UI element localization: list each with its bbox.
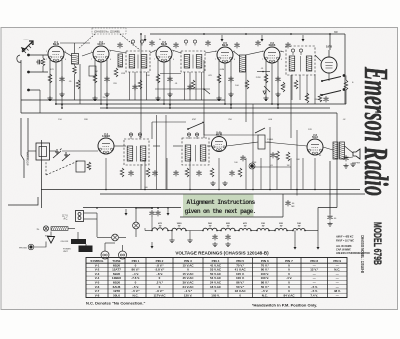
wire loop left bbox=[28, 150, 36, 152]
wire chain link bbox=[287, 230, 293, 232]
rectifier SE @136,225.5 bbox=[133, 222, 140, 229]
capacitor C top @208 bbox=[205, 40, 210, 46]
capacitor C top @288 bbox=[285, 42, 290, 48]
resistor R V8 grid stopper bbox=[318, 94, 322, 102]
wire vertical 166 bbox=[165, 115, 167, 190]
wire chain lead-in bbox=[145, 230, 152, 232]
callout chassis numbers note bbox=[92, 28, 126, 34]
wire T3 lead @201.5 bbox=[201, 72, 203, 100]
wire gang frame bbox=[41, 140, 43, 208]
junction @253,189.5 bbox=[252, 189, 254, 191]
wire AC neutral bbox=[84, 218, 97, 220]
tube V8 50L6 bbox=[307, 139, 323, 155]
IF transformer T5 3rd IF bbox=[286, 46, 315, 75]
wire vertical 337 bbox=[336, 113, 338, 208]
arrow from top bus @262 bbox=[261, 35, 264, 42]
wire IF drop bbox=[151, 122, 153, 139]
volume control R12 bbox=[258, 135, 265, 149]
loop antenna L1 bbox=[36, 143, 50, 160]
wire bus 4 bbox=[41, 189, 360, 191]
trimmer capacitor @131 bbox=[129, 133, 132, 139]
resistor R5 hatched bbox=[118, 54, 123, 67]
capacitor C16 40MF bbox=[285, 200, 290, 206]
band switch S1 wafer A bbox=[322, 77, 341, 82]
rectifier SE @115,237.5 bbox=[112, 234, 119, 241]
resistor R ballast bbox=[51, 227, 68, 231]
arrow feed @126 bbox=[125, 209, 128, 216]
junction top bus @291 bbox=[290, 33, 292, 35]
capacitor C bypass @170 bbox=[167, 76, 172, 82]
arrowhead feed @170 bbox=[169, 104, 172, 107]
wire link to volume bbox=[204, 134, 258, 136]
wire chain link bbox=[168, 230, 172, 232]
wire chain link bbox=[251, 230, 257, 232]
junction @190,189.5 bbox=[189, 189, 191, 191]
wire chain out bbox=[305, 230, 318, 232]
wire rect feed bbox=[135, 208, 137, 222]
wire socket feed 1 bbox=[104, 243, 106, 251]
switch contact B bbox=[343, 88, 346, 91]
wire switch to audio bbox=[203, 124, 205, 135]
wire tube grid drop bbox=[271, 63, 273, 104]
resistor R chain 3 bbox=[203, 228, 217, 230]
ground bbox=[167, 92, 172, 97]
wire tube grid drop bbox=[55, 62, 57, 104]
switch contact bbox=[202, 122, 204, 124]
junction top bus @141 bbox=[140, 33, 142, 35]
ground bbox=[343, 164, 348, 169]
wire top link bbox=[152, 121, 186, 123]
ground bbox=[59, 92, 64, 97]
tube socket view @105 bbox=[101, 251, 109, 259]
resistor R bias @219 bbox=[217, 74, 221, 83]
resistor R 1meg bbox=[286, 152, 290, 161]
wire drop @106 bbox=[105, 158, 107, 190]
wire AVC bus bbox=[21, 99, 225, 101]
trimmer capacitor @197 bbox=[195, 133, 198, 139]
wire AC hot bbox=[84, 212, 97, 214]
wire V5 plate to L4 bbox=[233, 51, 240, 56]
ground bbox=[327, 222, 332, 227]
junction @106,189.5 bbox=[105, 189, 107, 191]
wire tube cathode drop bbox=[94, 60, 96, 100]
wire socket feed 2 bbox=[122, 245, 124, 251]
wire ext terminal bbox=[29, 89, 41, 91]
junction @56,104 bbox=[55, 103, 57, 105]
trimmer capacitor T5 @301 bbox=[299, 49, 302, 55]
tube V4 12BE6 bbox=[98, 138, 114, 154]
resistor R chain 2 bbox=[172, 228, 186, 230]
capacitor C top @176 bbox=[173, 42, 178, 48]
resistor R plate V2 bbox=[114, 68, 118, 77]
arrow B+ end bbox=[317, 243, 320, 250]
resistor R row2 @187 bbox=[185, 168, 189, 177]
resistor R screen @78 bbox=[76, 80, 80, 89]
arrow feed @168 bbox=[167, 209, 170, 216]
wire T2 lead @146.5 bbox=[146, 72, 148, 100]
ground bbox=[216, 96, 221, 101]
ground bbox=[92, 96, 97, 101]
capacitor C bypass @231 bbox=[228, 76, 233, 82]
wire bus 5 bbox=[100, 193, 365, 195]
resistor R bias @50 bbox=[48, 74, 52, 83]
wire tube plate drop bbox=[230, 61, 232, 108]
arrow from top bus @145 bbox=[144, 35, 147, 42]
capacitor C coupling audio bbox=[270, 152, 275, 158]
wire ballast to switch bbox=[68, 228, 75, 230]
wire drop @291 bbox=[290, 158, 292, 190]
callout leader lines bbox=[78, 34, 140, 50]
capacitor C row2 @155 bbox=[152, 170, 157, 176]
wire T3 lead @196 bbox=[195, 72, 197, 100]
trimmer capacitor T5 @293 bbox=[291, 49, 294, 55]
wire loop right bbox=[50, 150, 57, 152]
antenna lead-in loop bbox=[17, 55, 21, 62]
wire vertical right of note bbox=[282, 194, 284, 217]
ground bbox=[212, 242, 217, 247]
capacitor C under T3 bbox=[187, 84, 192, 90]
junction @225,104 bbox=[224, 103, 226, 105]
capacitor C row2 @131 bbox=[128, 170, 133, 176]
wire return y89 bbox=[155, 88, 210, 90]
voltage readings table body rows bbox=[95, 263, 341, 297]
wire T7 to V5b bbox=[207, 145, 212, 147]
wire to speaker bbox=[345, 146, 354, 153]
wire tube cathode drop bbox=[49, 60, 51, 100]
ground bbox=[155, 96, 160, 101]
junction top bus @246 bbox=[245, 33, 247, 35]
wire T5 lead @292 bbox=[291, 75, 293, 100]
wire V3 plate to T3 bbox=[172, 50, 181, 53]
wire AC run bbox=[96, 213, 98, 237]
ground bbox=[222, 181, 227, 186]
capacitor C row2 @199 bbox=[196, 170, 201, 176]
junction B+ bus @97 bbox=[96, 207, 98, 209]
tube V5 6BJ6 bbox=[217, 47, 233, 63]
wire T5 secondary down bbox=[314, 75, 316, 104]
junction @158,100 bbox=[157, 99, 159, 101]
tube V3 6BJ6 bbox=[156, 46, 172, 62]
pilot lamp I1 bbox=[43, 226, 48, 231]
junction top bus @204 bbox=[203, 33, 205, 35]
resistor R chain 4 bbox=[221, 228, 235, 230]
capacitor C filter B bbox=[155, 210, 160, 216]
wire T5 lead @300 bbox=[299, 75, 301, 100]
voltage readings table header row bbox=[90, 259, 341, 263]
resistor R row2 @212 bbox=[210, 168, 214, 177]
junction @219,100 bbox=[218, 99, 220, 101]
coil L4 bbox=[240, 55, 246, 72]
resistor R screen @296 bbox=[294, 80, 298, 89]
wire loop feed bbox=[27, 118, 29, 160]
wire R4 down bbox=[74, 74, 76, 100]
terminal GND bbox=[27, 71, 30, 74]
wire segment 318-337 bbox=[318, 207, 337, 209]
junction @272,104 bbox=[271, 103, 273, 105]
arrow from top bus @222 bbox=[221, 35, 224, 42]
junction @278,108 bbox=[277, 107, 279, 109]
capacitor C bypass @278 bbox=[275, 76, 280, 82]
wire T3 lead @184.5 bbox=[184, 72, 186, 100]
capacitor C bypass @62 bbox=[59, 76, 64, 82]
arrow feed 295 bbox=[294, 243, 297, 250]
trimmer capacitor @189 bbox=[187, 133, 190, 139]
wire T3 to V5 grid bbox=[205, 51, 217, 53]
junction @231,108 bbox=[230, 107, 232, 109]
wire tangent below note bbox=[180, 216, 283, 218]
capacitor C row2 @176 bbox=[173, 170, 178, 176]
wire audio to V8 grid bbox=[265, 142, 307, 146]
wire diode to switch bbox=[328, 73, 330, 81]
resistor R grid bbox=[276, 151, 280, 160]
trimmer capacitor top @195 bbox=[193, 40, 196, 46]
tube V6 6BD6 bbox=[264, 47, 280, 63]
junction @101,104 bbox=[100, 103, 102, 105]
capacitor C1 coupling bbox=[36, 60, 42, 65]
wire V4 plate to T6 bbox=[114, 145, 126, 147]
wire T2 lead @135 bbox=[134, 72, 136, 100]
resistor R chain 1 bbox=[152, 228, 168, 231]
wire drop @167 bbox=[166, 158, 168, 190]
capacitor C filter A bbox=[149, 210, 154, 216]
capacitor C top @152 bbox=[149, 40, 154, 46]
band switch S1 wafer B bbox=[322, 91, 341, 96]
ground bbox=[169, 238, 174, 243]
resistor R chain 8 bbox=[293, 229, 305, 231]
wire chain drop bbox=[317, 231, 319, 244]
wire drop @261 bbox=[260, 158, 262, 190]
wire V7 stem bbox=[328, 50, 330, 57]
resistor R row2 @148 bbox=[146, 168, 150, 177]
wire tube plate drop bbox=[106, 60, 108, 108]
wire tube grid drop bbox=[224, 63, 226, 104]
arrow from top bus @303 bbox=[302, 35, 305, 42]
ground bbox=[225, 242, 230, 247]
capacitor C17 40MF bbox=[327, 214, 332, 220]
phono jack J1 bbox=[250, 164, 254, 168]
wire chain link bbox=[217, 230, 221, 232]
wire T5 B+ drop bbox=[329, 34, 331, 50]
switch contact A bbox=[343, 74, 346, 77]
wire coil sec down bbox=[79, 64, 81, 104]
wire vertical 204 bbox=[203, 60, 205, 138]
wire T2 lead @129.5 bbox=[129, 72, 131, 100]
wire over coil bbox=[60, 42, 90, 44]
capacitor C det bbox=[240, 155, 245, 161]
capacitor C top @258 bbox=[255, 40, 260, 46]
ground bbox=[187, 238, 192, 243]
trimmer capacitor top @186 bbox=[184, 40, 187, 46]
wire tube plate drop bbox=[277, 61, 279, 108]
wire antenna to V1 bbox=[29, 54, 49, 56]
arrow to filament bbox=[151, 242, 154, 249]
wire vertical 141 top bbox=[140, 34, 142, 138]
capacitor C bypass @107 bbox=[104, 76, 109, 82]
wire drop @277 bbox=[276, 158, 278, 190]
resistor R chain 7 bbox=[275, 229, 287, 231]
AVC arrow bbox=[263, 91, 266, 94]
wire vertical 246 bbox=[245, 55, 247, 122]
wire tube cathode drop bbox=[265, 61, 267, 100]
wire vertical 291 bbox=[290, 75, 292, 138]
wire drop @315 bbox=[314, 158, 316, 190]
arrowhead feed @231 bbox=[230, 104, 233, 107]
ground bbox=[210, 181, 215, 186]
wire segment bbox=[257, 71, 270, 73]
wire vertical 253 bbox=[252, 104, 254, 190]
wire gang to V4 grid bbox=[62, 150, 98, 152]
wire tube cathode drop bbox=[157, 60, 159, 100]
alignment note highlight bbox=[183, 195, 254, 217]
ground bbox=[104, 92, 109, 97]
wire vertical 297 bbox=[296, 130, 298, 196]
wire gnd terminal bbox=[29, 71, 49, 73]
speaker SP1 bbox=[353, 149, 360, 159]
wire vertical 156 bbox=[156, 115, 158, 190]
resistor R screen @193 bbox=[191, 80, 195, 89]
wire V8 plate to T8 bbox=[323, 147, 333, 150]
wire coil to R4 bbox=[74, 64, 76, 66]
wire to T7 bbox=[173, 145, 181, 147]
trimmer capacitor top @142 bbox=[140, 40, 143, 46]
resistor R audio bbox=[344, 80, 348, 90]
junction top bus @330 bbox=[329, 33, 331, 35]
power resistor block bbox=[79, 246, 93, 253]
trimmer capacitor @140 bbox=[138, 133, 141, 139]
wire top B+ bus bbox=[150, 33, 345, 35]
wire drop to chain end bbox=[317, 208, 319, 231]
wire ground bus bbox=[21, 112, 337, 114]
on-off switch S3 (on volume) bbox=[71, 239, 86, 244]
switch on volume control bbox=[255, 128, 265, 133]
wire tube plate drop bbox=[61, 60, 63, 108]
junction @50,100 bbox=[49, 99, 51, 101]
oscillator trim box bbox=[89, 66, 96, 76]
switch pivot bbox=[187, 128, 189, 130]
wire phono enclosure corner bbox=[8, 197, 38, 205]
wire T6 to bus bbox=[153, 145, 160, 147]
output transformer T8 bbox=[333, 142, 345, 159]
tube socket view @122.5 bbox=[119, 251, 127, 259]
wire left vertical 1 bbox=[20, 60, 22, 113]
junction B+ bus @168 bbox=[167, 207, 169, 209]
wire B+ distribution bus bbox=[83, 207, 181, 209]
junction @170,108 bbox=[169, 107, 171, 109]
wire right vertical from top bus bbox=[344, 34, 346, 104]
resistor R chain 6 bbox=[257, 229, 269, 231]
wire L3 to V2 grid bbox=[82, 52, 94, 56]
wire bus 2 bbox=[55, 103, 346, 105]
wire vertical 141 bottom bbox=[140, 164, 142, 190]
arrowhead feed @62 bbox=[61, 104, 64, 107]
wire jog bbox=[204, 89, 210, 94]
wire audio return bbox=[253, 166, 291, 168]
wire loop return bbox=[21, 118, 24, 178]
ground bbox=[350, 162, 355, 167]
junction @270,189.5 bbox=[269, 189, 271, 191]
antenna hatch bbox=[24, 43, 34, 53]
IF transformer T3 2nd IF bbox=[181, 51, 205, 72]
ground bbox=[275, 92, 280, 97]
junction B+ bus @152 bbox=[151, 207, 153, 209]
junction @62,108 bbox=[61, 107, 63, 109]
wire cap to chain bbox=[151, 216, 153, 231]
wire vertical 270 bbox=[269, 127, 271, 190]
capacitor C filter @228 bbox=[225, 234, 230, 240]
wire vertical 330 bbox=[329, 161, 331, 214]
wire drop 295 bbox=[294, 231, 296, 244]
variable capacitor C2a bbox=[53, 149, 61, 158]
capacitor C top @237 bbox=[234, 42, 239, 48]
junction @107,108 bbox=[106, 107, 108, 109]
wire ext drop bbox=[39, 90, 41, 113]
resistor R screen @140 bbox=[138, 80, 142, 89]
wire bus 3 bbox=[100, 107, 330, 109]
wire T5 lead @307 bbox=[306, 75, 308, 100]
junction @315,189.5 bbox=[314, 189, 316, 191]
junction @297,189.5 bbox=[296, 189, 298, 191]
wire drop @246 bbox=[245, 158, 247, 190]
resistor R screen @247 bbox=[245, 80, 249, 89]
wire tube plate drop bbox=[169, 60, 171, 108]
wire V6 plate to T5 bbox=[280, 51, 284, 52]
wire drop @219 bbox=[218, 158, 220, 190]
capacitor C top @120 bbox=[117, 42, 122, 48]
junction B+ bus @136 bbox=[135, 207, 137, 209]
wire coil top bbox=[74, 43, 76, 54]
junction @266,100 bbox=[265, 99, 267, 101]
wire L4 to V6 grid bbox=[246, 51, 265, 55]
wire tube grid drop bbox=[100, 62, 102, 104]
wire to speaker 2 bbox=[345, 157, 354, 158]
ground bbox=[47, 96, 52, 101]
dial lamp triangle bbox=[48, 237, 55, 244]
IF transformer T2 1st IF bbox=[126, 51, 150, 72]
wire T2 to V3 grid bbox=[150, 50, 156, 53]
junction @219,189.5 bbox=[218, 189, 220, 191]
AC interlock socket bbox=[76, 211, 84, 222]
capacitor C under T2 bbox=[132, 84, 137, 90]
resistor R bias @266 bbox=[264, 74, 268, 83]
resistor R chain 5 bbox=[239, 229, 251, 231]
wire drop @190 bbox=[189, 158, 191, 190]
tube V2 12AT7 bbox=[93, 46, 109, 62]
terminal EXT bbox=[27, 89, 30, 92]
tube V7 19T8 detector bbox=[321, 57, 337, 73]
wire rect link bbox=[119, 237, 126, 239]
wire AVC diagonal bbox=[264, 86, 270, 92]
resistor R bias @158 bbox=[156, 74, 160, 83]
antenna coil L3 bbox=[72, 54, 79, 65]
oscillator coil L2 bbox=[76, 161, 85, 172]
wire V1 plate to L3 bbox=[63, 51, 72, 56]
junction y89 bbox=[203, 88, 205, 90]
tube V1 6BJ6 bbox=[48, 46, 64, 62]
antenna symbol bbox=[22, 41, 33, 52]
wire phono to lamp bbox=[34, 242, 46, 248]
wire T2 lead @141 bbox=[140, 72, 142, 100]
capacitor C speaker bbox=[343, 155, 348, 161]
capacitor C filter @215 bbox=[212, 234, 217, 240]
IF transformer T6 osc/IF bbox=[124, 139, 149, 165]
arrowhead feed @107 bbox=[106, 104, 109, 107]
variable capacitor C2b bbox=[62, 152, 70, 161]
ground bbox=[263, 96, 268, 101]
resistor R row2 @240 bbox=[238, 168, 242, 177]
voltage readings table grid bbox=[86, 258, 347, 298]
trimmer capacitor top @133 bbox=[131, 40, 134, 46]
wire chain link bbox=[269, 230, 275, 232]
